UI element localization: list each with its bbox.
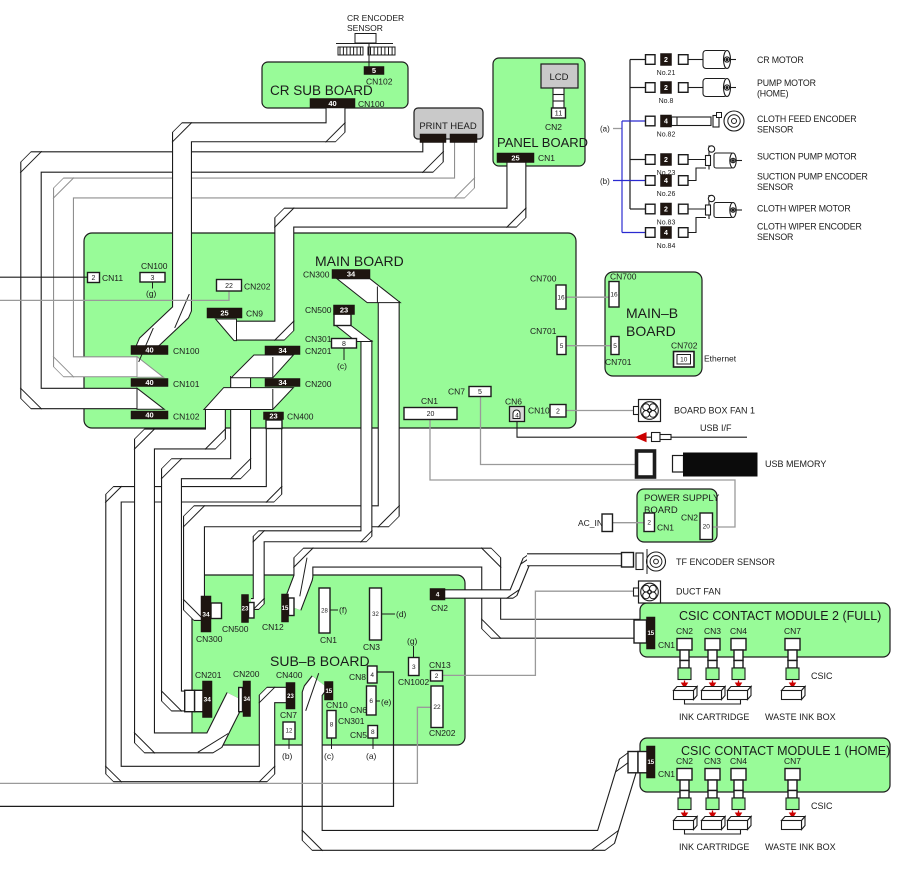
svg-text:15: 15 (325, 689, 332, 695)
connector CN100 main (40) (131, 346, 168, 355)
svg-text:CLOTH WIPER MOTOR: CLOTH WIPER MOTOR (757, 204, 851, 214)
svg-text:16: 16 (610, 292, 618, 299)
wire: CN700 main to main-b (566, 296, 609, 298)
svg-text:25: 25 (220, 309, 228, 318)
ribbon: panel board CN1 to main CN9 (234, 160, 516, 331)
connector stack right of sub CN300 (211, 603, 222, 619)
wire: main CN10 to board box fan (566, 410, 634, 412)
svg-text:CR ENCODER: CR ENCODER (347, 13, 404, 23)
connector CN301 sub (8) with (c) (327, 711, 336, 739)
svg-text:CN10: CN10 (326, 700, 348, 710)
svg-text:CN9: CN9 (246, 309, 263, 319)
svg-text:CN700: CN700 (610, 272, 637, 282)
svg-text:10: 10 (680, 357, 688, 364)
svg-text:(a): (a) (366, 751, 377, 761)
svg-text:CN10: CN10 (528, 406, 550, 416)
svg-text:CN100: CN100 (173, 346, 200, 356)
suction pump encoder wire (688, 168, 706, 181)
svg-text:20: 20 (427, 411, 435, 418)
board: CR SUB BOARD (262, 62, 408, 108)
connector CN102 main (40) (131, 411, 168, 419)
svg-text:CN7: CN7 (448, 387, 465, 397)
USB memory stick (673, 456, 684, 473)
CR motor icon (688, 59, 703, 61)
svg-text:CN701: CN701 (530, 326, 557, 336)
svg-text:CN7: CN7 (784, 626, 801, 636)
svg-text:34: 34 (347, 270, 356, 279)
svg-text:CN200: CN200 (305, 379, 332, 389)
stack under main CN400 (266, 420, 282, 429)
connector CN300 sub (34) (201, 596, 211, 632)
fold slab under main CN300 (337, 279, 400, 303)
CSIC chip (green square) (786, 668, 799, 680)
connector CN201 main (34) (265, 346, 300, 355)
svg-text:15: 15 (647, 760, 654, 766)
cartridge box (702, 687, 726, 691)
svg-text:CN500: CN500 (222, 624, 249, 634)
svg-text:CN200: CN200 (233, 669, 260, 679)
fold slab under main CN500 (336, 326, 372, 342)
connector CN3 sub (32) with (d) (370, 588, 382, 640)
connector CN2 sub (4) (430, 589, 445, 601)
svg-text:CN1: CN1 (421, 396, 438, 406)
svg-text:WASTE INK BOX: WASTE INK BOX (765, 712, 836, 722)
svg-text:22: 22 (433, 704, 441, 711)
svg-text:CN100: CN100 (358, 99, 385, 109)
stack under main CN500 (334, 314, 351, 326)
svg-text:12: 12 (286, 729, 293, 735)
CSIC chip (green square) (678, 798, 691, 810)
wire: CN11 to left edge (0, 276, 88, 278)
svg-text:CN2: CN2 (681, 513, 698, 523)
svg-text:2: 2 (664, 157, 668, 164)
fold slab under main CN201 (231, 355, 293, 378)
svg-text:CN11: CN11 (102, 273, 123, 283)
svg-text:40: 40 (328, 99, 336, 108)
svg-text:SENSOR: SENSOR (757, 232, 793, 242)
svg-text:2: 2 (556, 408, 560, 415)
USB receptacle icon (637, 451, 655, 477)
svg-text:No.82: No.82 (657, 132, 676, 139)
svg-text:CSIC CONTACT MODULE 2 (FULL): CSIC CONTACT MODULE 2 (FULL) (679, 609, 881, 623)
ribbon: print head left connector to main CN102 (outer loop) (31, 140, 433, 399)
svg-text:CN400: CN400 (287, 412, 314, 422)
connector stack into CSIC module 2 CN1 (634, 620, 647, 643)
cloth feed encoder sensor icon (672, 117, 712, 126)
ribbon: long run into sub CN12 from east (292, 558, 640, 629)
cartridge box (782, 817, 806, 821)
wire: AC_IN to power CN1 (612, 522, 644, 524)
svg-text:CN1: CN1 (538, 153, 555, 163)
motor chain connector No.23 (646, 155, 656, 165)
connector stack into CSIC module 1 CN1 (628, 752, 638, 773)
svg-text:No.83: No.83 (657, 220, 676, 227)
motor chain connector No.82 (646, 116, 656, 126)
wire: sub CN202 to left edge (0, 707, 432, 783)
svg-text:CN4: CN4 (730, 756, 747, 766)
svg-text:6: 6 (369, 698, 373, 705)
print head block (414, 108, 483, 139)
svg-text:Ethernet: Ethernet (704, 354, 737, 364)
svg-text:CN202: CN202 (244, 282, 271, 292)
CSIC chip (green square) (732, 798, 745, 810)
fold slab under main CN200 (204, 388, 294, 410)
svg-text:No.84: No.84 (657, 243, 676, 250)
svg-text:5: 5 (560, 343, 564, 350)
svg-text:8: 8 (342, 341, 346, 348)
red arrow (792, 681, 794, 684)
fold triangle into CN101 (137, 357, 164, 378)
svg-text:4: 4 (664, 230, 668, 237)
svg-text:(a): (a) (600, 125, 610, 134)
svg-text:PRINT HEAD: PRINT HEAD (419, 121, 477, 132)
board: CSIC CONTACT MODULE 1 (HOME) (640, 738, 890, 792)
connector CN12 sub (15) (282, 594, 289, 622)
svg-text:MAIN BOARD: MAIN BOARD (315, 253, 404, 269)
svg-text:AC_IN: AC_IN (578, 518, 603, 528)
LCD connector stack to CN2 (553, 88, 564, 108)
CSIC chip (green square) (786, 798, 799, 810)
svg-text:No.21: No.21 (657, 70, 676, 77)
svg-text:USB MEMORY: USB MEMORY (765, 459, 826, 469)
svg-text:23: 23 (269, 411, 277, 420)
svg-text:INK CARTRIDGE: INK CARTRIDGE (679, 842, 749, 852)
fold triangle into CN102 (137, 388, 164, 409)
motor chain connector No.26 (646, 176, 656, 186)
red arrow (684, 681, 686, 684)
svg-text:CN102: CN102 (366, 77, 393, 87)
svg-text:CN301: CN301 (305, 334, 332, 344)
motor chain connector No.83 (646, 204, 656, 214)
svg-text:(d): (d) (396, 609, 407, 619)
svg-text:11: 11 (555, 109, 563, 118)
ink cartridge bracket (685, 700, 741, 705)
ribbon: main CN200 to sub CN200 (145, 408, 237, 743)
connector CN200 main (34) (265, 379, 300, 387)
connector CN202 (22) (217, 280, 242, 292)
svg-text:No.8: No.8 (659, 98, 674, 105)
ink cartridge bracket (685, 830, 741, 835)
connector stack into sub CN200 (239, 688, 243, 712)
CSIC chip (green square) (706, 798, 719, 810)
svg-text:CN7: CN7 (280, 710, 297, 720)
board box fan 1 icon (639, 400, 661, 422)
svg-text:5: 5 (613, 343, 617, 350)
svg-text:CN1: CN1 (320, 635, 337, 645)
svg-text:CN300: CN300 (196, 634, 223, 644)
svg-text:CN1002: CN1002 (398, 677, 429, 687)
ribbon: main CN500 relay to sub CN500 (251, 340, 366, 604)
svg-text:2: 2 (664, 207, 668, 214)
svg-text:(g): (g) (146, 289, 157, 299)
cartridge box (674, 687, 698, 691)
connector CN2 on panel board (552, 108, 566, 118)
cartridge box (728, 687, 752, 691)
svg-text:34: 34 (243, 697, 250, 703)
board: CSIC CONTACT MODULE 2 (FULL) (640, 603, 890, 657)
svg-text:15: 15 (647, 631, 654, 637)
svg-text:CN6: CN6 (350, 705, 367, 715)
svg-text:CN5: CN5 (350, 730, 367, 740)
board: MAIN BOARD (84, 233, 576, 428)
cloth wiper encoder wire (688, 218, 706, 233)
svg-text:No.26: No.26 (657, 191, 676, 198)
svg-text:SENSOR: SENSOR (757, 182, 793, 192)
duct fan icon (639, 581, 661, 603)
board: SUB-B BOARD (192, 575, 465, 745)
connector CN9 (25) (207, 308, 242, 318)
cartridge box (728, 817, 752, 821)
connector CN1 sub (28) with (f) (319, 588, 330, 633)
svg-text:(e): (e) (381, 697, 392, 707)
svg-text:2: 2 (435, 673, 439, 680)
CSIC chip (green square) (732, 668, 745, 680)
svg-text:40: 40 (145, 411, 153, 420)
svg-text:CN301: CN301 (338, 716, 365, 726)
connector stack into sub CN500 (249, 603, 255, 619)
connector CN11 (2) (88, 273, 100, 283)
print head right connector (450, 134, 477, 143)
CSIC module CN1 connector (15) (647, 746, 656, 778)
print head left connector (420, 134, 446, 143)
svg-text:CN4: CN4 (730, 626, 747, 636)
svg-text:SUB–B BOARD: SUB–B BOARD (270, 653, 370, 669)
red arrow (712, 811, 714, 814)
svg-text:CN701: CN701 (605, 357, 632, 367)
CSIC chip (green square) (706, 668, 719, 680)
cartridge box (702, 817, 726, 821)
LCD block on panel board (541, 64, 578, 88)
cartridge box (674, 817, 698, 821)
red arrow (712, 681, 714, 684)
svg-text:CN6: CN6 (505, 397, 522, 407)
svg-text:CN101: CN101 (173, 379, 200, 389)
wire: main CN1 to power supply CN2 (430, 420, 735, 528)
svg-text:16: 16 (557, 294, 565, 301)
svg-text:CN2: CN2 (676, 756, 693, 766)
fold triangle into CN9 (216, 319, 237, 341)
svg-text:PANEL BOARD: PANEL BOARD (497, 135, 588, 150)
svg-text:34: 34 (204, 697, 212, 704)
CSIC module CN1 connector (15) (647, 617, 656, 649)
svg-text:32: 32 (372, 612, 379, 618)
red arrow (738, 811, 740, 814)
svg-text:CN12: CN12 (262, 622, 284, 632)
cloth wiper motor icon (688, 208, 706, 210)
connector CN701 main-b (5) (611, 337, 619, 355)
svg-text:5: 5 (478, 389, 482, 396)
svg-text:TF ENCODER SENSOR: TF ENCODER SENSOR (676, 557, 776, 567)
connector CN100 on CR sub board (310, 99, 355, 109)
connector CN202 sub (22) (431, 686, 443, 728)
svg-text:USB I/F: USB I/F (700, 423, 732, 433)
svg-text:(b): (b) (600, 177, 610, 186)
svg-text:DUCT FAN: DUCT FAN (676, 587, 721, 597)
pump motor icon (688, 87, 703, 89)
svg-text:BOARD: BOARD (626, 323, 676, 339)
svg-text:CN3: CN3 (704, 626, 721, 636)
cartridge box (782, 687, 806, 691)
svg-text:CR SUB BOARD: CR SUB BOARD (270, 83, 373, 98)
svg-text:(f): (f) (339, 605, 347, 615)
svg-text:CN201: CN201 (305, 346, 332, 356)
connector CN500 sub (23) (242, 595, 249, 623)
svg-text:34: 34 (278, 378, 287, 387)
svg-text:4: 4 (370, 672, 374, 679)
wire: CN202 main board to left edge (0, 291, 229, 300)
ribbon: print head right connector to main CN101 (gray loop) (64, 140, 465, 367)
connector stack into sub CN12 (289, 598, 295, 616)
svg-text:CN2: CN2 (545, 122, 562, 132)
svg-text:(b): (b) (282, 751, 293, 761)
ribbon: sub CN2 to TF encoder sensor (445, 560, 622, 594)
svg-text:CN300: CN300 (303, 270, 330, 280)
svg-text:WASTE INK BOX: WASTE INK BOX (765, 842, 836, 852)
svg-text:CN3: CN3 (704, 756, 721, 766)
svg-text:CN1: CN1 (658, 640, 675, 650)
svg-text:23: 23 (242, 607, 249, 613)
connector CN102 on CR sub board (364, 67, 384, 75)
motor chain connector No.21 (646, 55, 656, 65)
svg-text:CN2: CN2 (431, 603, 448, 613)
svg-text:15: 15 (282, 606, 289, 612)
board: PANEL BOARD (493, 58, 585, 166)
svg-text:23: 23 (287, 694, 294, 700)
svg-text:PUMP MOTOR: PUMP MOTOR (757, 78, 816, 88)
connector CN10 sub (15) (325, 682, 334, 701)
board: POWER SUPPLY BOARD (637, 489, 717, 542)
svg-text:CN201: CN201 (195, 670, 222, 680)
svg-text:SUCTION PUMP ENCODER: SUCTION PUMP ENCODER (757, 172, 868, 182)
svg-text:2: 2 (92, 275, 96, 282)
wire: CN701 main to main-b (566, 345, 611, 347)
svg-text:5: 5 (372, 66, 376, 75)
svg-text:CN400: CN400 (276, 670, 303, 680)
svg-text:40: 40 (145, 346, 153, 355)
svg-text:CN1: CN1 (658, 769, 675, 779)
ribbon: sub CN10 down and east to CSIC module 1 CN1 (312, 682, 642, 840)
svg-text:4: 4 (664, 119, 668, 126)
board: MAIN-B BOARD (605, 272, 702, 376)
motor chain connector No.84 (646, 228, 656, 238)
svg-text:34: 34 (278, 346, 287, 355)
svg-text:SUCTION PUMP MOTOR: SUCTION PUMP MOTOR (757, 152, 857, 162)
svg-text:2: 2 (647, 520, 651, 527)
svg-text:(g): (g) (407, 636, 418, 646)
svg-text:CN7: CN7 (784, 756, 801, 766)
svg-text:CN13: CN13 (429, 660, 451, 670)
wire: main CN7 to USB receptacle (481, 397, 637, 465)
wire: sub CN8 to left edge (0, 672, 394, 806)
svg-text:CN3: CN3 (363, 642, 380, 652)
svg-text:CR MOTOR: CR MOTOR (757, 55, 804, 65)
svg-text:(c): (c) (337, 361, 347, 371)
svg-text:CSIC: CSIC (811, 801, 833, 811)
svg-text:2: 2 (664, 57, 668, 64)
svg-text:3: 3 (151, 275, 155, 282)
motor chain bus (629, 60, 631, 210)
svg-text:3: 3 (412, 664, 416, 671)
svg-text:CN100: CN100 (141, 261, 168, 271)
ribbon: main CN201 to sub CN201 (172, 376, 241, 701)
red arrow (738, 681, 740, 684)
ribbon: CR sub board CN100 down to main CN100 (146, 106, 336, 349)
wire: USB I/F from CN6 (517, 422, 747, 438)
svg-text:34: 34 (202, 611, 210, 618)
svg-text:28: 28 (321, 609, 328, 615)
svg-text:CN202: CN202 (429, 728, 456, 738)
svg-text:CN2: CN2 (676, 626, 693, 636)
svg-text:20: 20 (703, 524, 711, 531)
svg-text:BOARD BOX FAN 1: BOARD BOX FAN 1 (674, 406, 755, 416)
CR encoder sensor icon (336, 34, 395, 67)
wire: sub CN13 to duct fan (443, 591, 634, 675)
svg-text:23: 23 (340, 305, 348, 314)
suction pump motor icon (688, 159, 706, 161)
svg-text:25: 25 (511, 153, 519, 162)
connector CN400 main (23) (264, 412, 284, 420)
TF encoder sensor icon (622, 553, 634, 568)
red arrow (792, 811, 794, 814)
svg-text:22: 22 (225, 283, 233, 290)
svg-text:8: 8 (371, 729, 375, 736)
red arrow (684, 811, 686, 814)
svg-text:POWER SUPPLY: POWER SUPPLY (644, 493, 720, 504)
svg-text:2: 2 (664, 85, 668, 92)
svg-text:CN8: CN8 (349, 672, 366, 682)
connector CN101 main (40) (131, 379, 168, 387)
svg-text:CN700: CN700 (530, 274, 557, 284)
svg-text:CLOTH WIPER ENCODER: CLOTH WIPER ENCODER (757, 222, 862, 232)
svg-text:40: 40 (145, 378, 153, 387)
svg-text:CN1: CN1 (657, 523, 674, 533)
motor chain connector No.8 (646, 83, 656, 93)
svg-text:CN102: CN102 (173, 412, 200, 422)
svg-text:SENSOR: SENSOR (757, 125, 793, 135)
ribbon: main CN400 to sub CN400 via left loop (114, 424, 289, 774)
svg-text:4: 4 (515, 413, 519, 420)
svg-text:LCD: LCD (549, 72, 568, 83)
svg-text:CN702: CN702 (671, 341, 698, 351)
CSIC chip (green square) (678, 668, 691, 680)
svg-text:4: 4 (436, 592, 440, 599)
connector stack into sub CN201 (185, 690, 195, 711)
svg-text:(c): (c) (324, 751, 334, 761)
svg-text:CN500: CN500 (305, 305, 332, 315)
connector CN1 on panel board (497, 153, 534, 163)
svg-text:8: 8 (330, 722, 334, 729)
svg-text:CLOTH FEED ENCODER: CLOTH FEED ENCODER (757, 114, 856, 124)
svg-text:CSIC: CSIC (811, 671, 833, 681)
svg-text:4: 4 (664, 178, 668, 185)
svg-text:MAIN–B: MAIN–B (626, 305, 678, 321)
svg-text:(HOME): (HOME) (757, 89, 789, 99)
svg-text:SENSOR: SENSOR (347, 23, 383, 33)
svg-text:INK CARTRIDGE: INK CARTRIDGE (679, 712, 749, 722)
ribbon: main CN300 down and across to sub CN300 (194, 301, 389, 610)
